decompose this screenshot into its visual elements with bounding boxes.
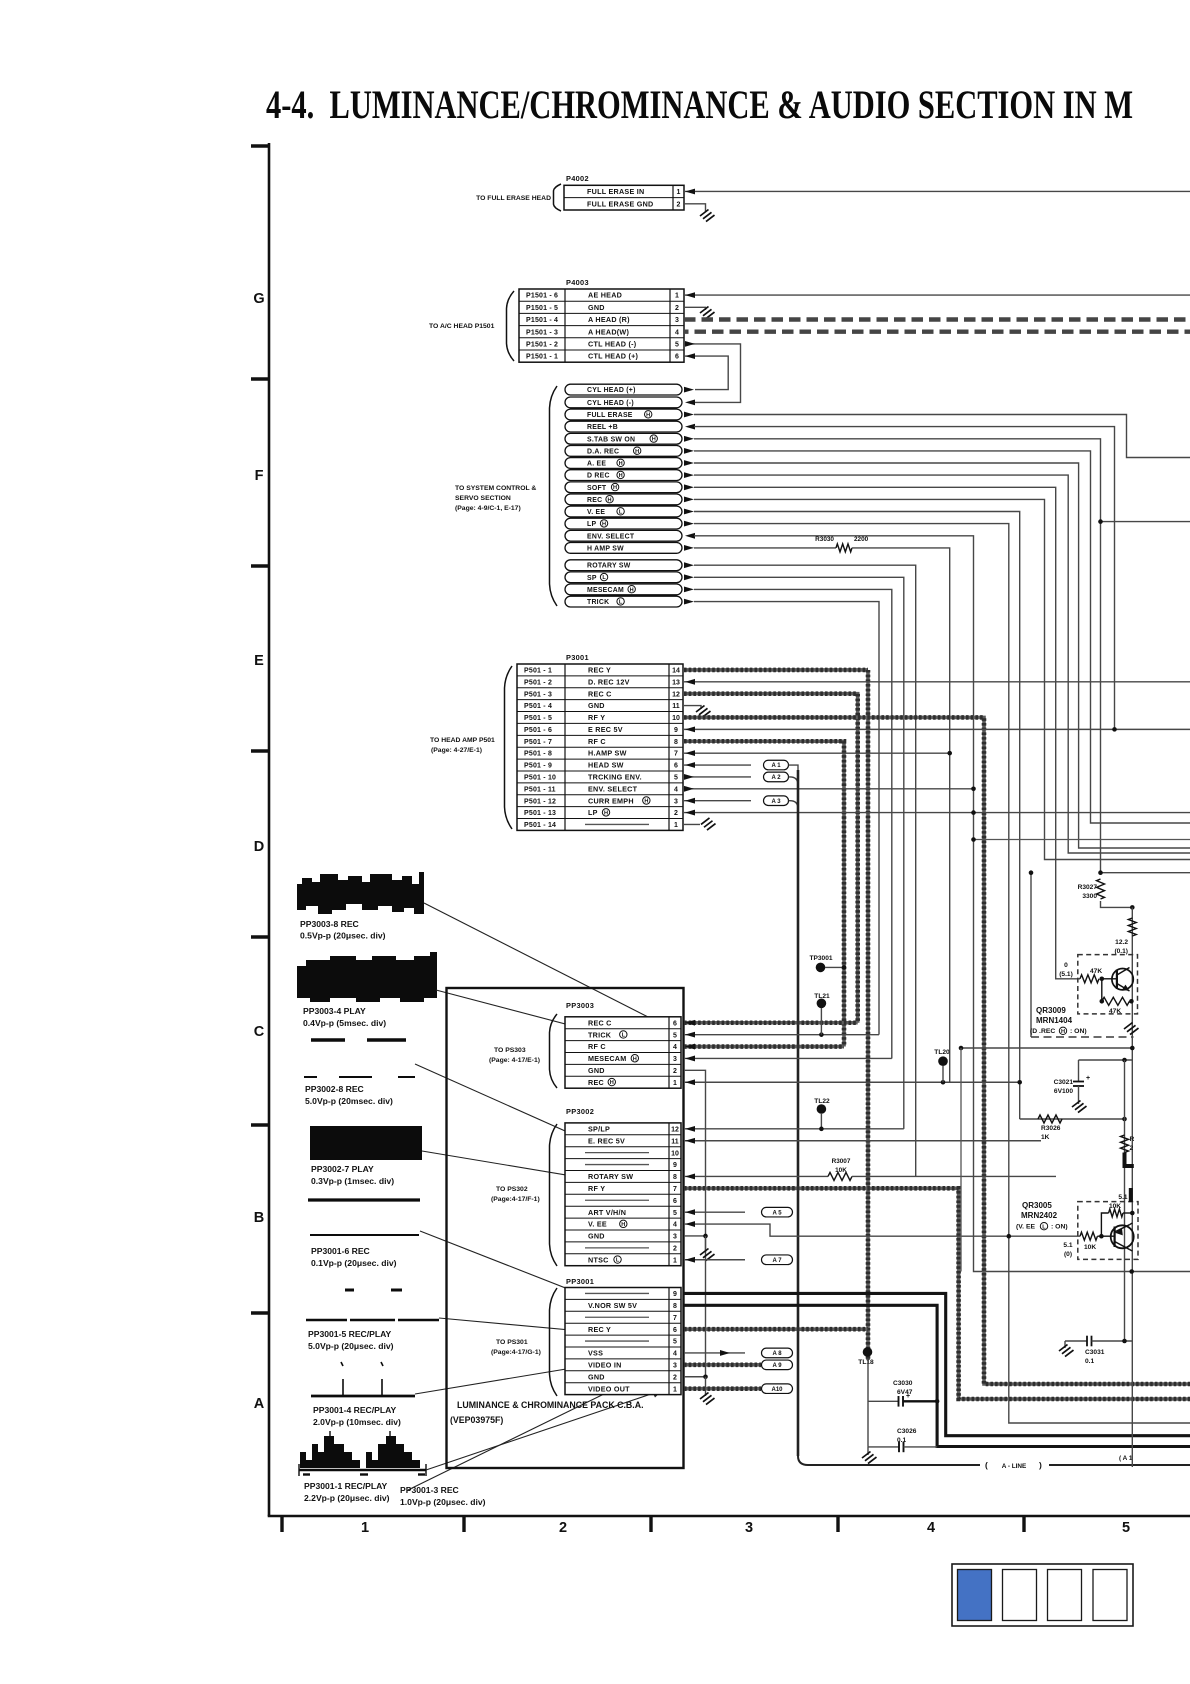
svg-text:9: 9	[674, 727, 678, 734]
bottom ruler line	[268, 1515, 1190, 1518]
svg-text:SP: SP	[587, 575, 597, 582]
wire P501-5 RF Y shielded	[684, 717, 1190, 1384]
svg-text:2.2Vp-p (20μsec. div): 2.2Vp-p (20μsec. div)	[304, 1493, 390, 1503]
svg-text:TRICK: TRICK	[588, 1030, 612, 1039]
svg-text:5.1: 5.1	[1063, 1242, 1072, 1249]
svg-text:2: 2	[675, 305, 679, 312]
svg-text:R3027: R3027	[1078, 884, 1098, 891]
svg-text:SOFT: SOFT	[587, 485, 607, 492]
annotation arrow PP3003-8 to pin	[424, 903, 652, 1019]
svg-text:B: B	[254, 1210, 264, 1226]
svg-text:REC Y: REC Y	[588, 666, 611, 675]
svg-text:11: 11	[671, 1138, 679, 1145]
svg-text:6: 6	[673, 1327, 677, 1334]
svg-text:13: 13	[672, 679, 680, 686]
wire V. EE net	[694, 512, 1020, 1120]
wire vertical x961	[960, 1048, 962, 1272]
svg-text:FULL ERASE: FULL ERASE	[587, 412, 633, 419]
svg-text:REEL +B: REEL +B	[587, 424, 618, 431]
wire FULL ERASE net	[694, 415, 1190, 458]
svg-text:V. EE: V. EE	[587, 509, 605, 516]
wire ROTARY SW net (right of R3007)	[852, 1175, 1056, 1177]
svg-text:PP3003: PP3003	[566, 1001, 594, 1010]
svg-text:D.A. REC: D.A. REC	[587, 448, 619, 455]
svg-text:12: 12	[671, 1126, 679, 1133]
svg-text:A HEAD (R): A HEAD (R)	[588, 315, 630, 324]
wire ENV. SELECT net	[694, 536, 1190, 1272]
svg-text:P1501 - 1: P1501 - 1	[526, 354, 558, 361]
svg-text:): )	[1039, 1460, 1042, 1470]
svg-text:TL18: TL18	[858, 1359, 874, 1366]
wire P501-6 E REC 5V	[684, 728, 1190, 730]
svg-text:E: E	[254, 653, 264, 669]
svg-text:CURR EMPH: CURR EMPH	[588, 796, 634, 805]
svg-text:A HEAD(W): A HEAD(W)	[588, 327, 629, 336]
wire 10K top to base junction	[1101, 1213, 1108, 1236]
svg-text:(0): (0)	[1064, 1251, 1072, 1258]
ground (PP3002-3)	[700, 1249, 715, 1261]
svg-text:P1501 - 5: P1501 - 5	[526, 305, 558, 312]
node ROTARY SW (servo section)	[565, 560, 682, 571]
wire emitter to bus	[961, 1047, 1132, 1049]
bracket for P4002	[554, 184, 562, 211]
svg-text:A 9: A 9	[772, 1363, 782, 1369]
svg-text:L: L	[622, 1033, 626, 1039]
svg-text:REC: REC	[587, 497, 602, 504]
ground (C3031)	[1059, 1345, 1074, 1357]
waveform PP3001-1 blob	[300, 1436, 360, 1468]
svg-text:P501 - 4: P501 - 4	[524, 703, 552, 710]
wire P501-13 LP	[684, 812, 1190, 814]
svg-text:D. REC 12V: D. REC 12V	[588, 677, 630, 686]
svg-text:P501 - 9: P501 - 9	[524, 763, 552, 770]
node REC (servo section)	[565, 494, 682, 505]
svg-text:5: 5	[673, 1339, 677, 1346]
ruler tick	[251, 749, 269, 752]
wire PP3001-6 REC Y shielded	[684, 1327, 868, 1331]
wire PP3001-9 heavy	[684, 1293, 1190, 1435]
svg-text:RF Y: RF Y	[588, 1184, 605, 1193]
wire dashed line y1037	[1031, 1036, 1134, 1038]
node A2	[764, 772, 789, 782]
svg-text:TO PS302: TO PS302	[496, 1186, 528, 1193]
wire SOFT net	[694, 487, 1080, 979]
wire S.TAB junction line	[1101, 521, 1190, 523]
wire PP3001-3 VIDEO IN shielded to A9	[684, 1363, 761, 1367]
svg-text:5: 5	[673, 1210, 677, 1217]
svg-text:R: R	[1130, 1136, 1135, 1143]
node TRICK (servo section)	[565, 596, 682, 607]
svg-text:H: H	[633, 1056, 637, 1062]
ground (PP3001-2)	[700, 1393, 715, 1405]
waveform PP3003-8 blob	[297, 872, 424, 914]
wire emitter branch	[1101, 979, 1103, 1002]
svg-text:47K: 47K	[1090, 968, 1102, 975]
annotation arrow PP3001-4 to pin	[415, 1354, 657, 1394]
bracket for PP3003	[550, 1014, 558, 1088]
svg-text:P501 - 6: P501 - 6	[524, 727, 552, 734]
block LUMINANCE & CHROMINANCE PACK C.B.A.	[447, 988, 684, 1468]
svg-text:TO HEAD AMP P501: TO HEAD AMP P501	[430, 737, 495, 744]
svg-text:PP3001-6 REC: PP3001-6 REC	[311, 1246, 370, 1256]
ruler tick	[251, 564, 269, 567]
svg-text:E REC 5V: E REC 5V	[588, 725, 623, 734]
svg-text:GND: GND	[588, 1232, 605, 1241]
svg-text:P4002: P4002	[566, 174, 589, 183]
svg-text:HEAD SW: HEAD SW	[588, 761, 624, 770]
wire heavy stub (clipped)	[1125, 1153, 1134, 1167]
wire GND stub down	[705, 1236, 707, 1252]
svg-text:D REC: D REC	[587, 473, 610, 480]
node V. EE (servo section)	[565, 506, 682, 517]
node SOFT (servo section)	[565, 482, 682, 493]
svg-text:TRICK: TRICK	[587, 599, 609, 606]
node A3	[764, 796, 789, 806]
svg-text:MESECAM: MESECAM	[588, 1054, 627, 1063]
connector PP3001	[565, 1288, 681, 1395]
svg-text:H: H	[619, 461, 623, 467]
node H AMP SW (servo section)	[565, 543, 682, 554]
svg-text:1K: 1K	[1041, 1134, 1050, 1141]
node ENV. SELECT (servo section)	[565, 530, 682, 541]
waveform PP3003-4 blob	[297, 952, 437, 1002]
wire PP3001-1 VIDEO OUT shielded to A10	[684, 1387, 761, 1391]
ruler tick	[462, 1516, 465, 1532]
svg-text:3: 3	[745, 1520, 753, 1536]
svg-text:1.0Vp-p (20μsec. div): 1.0Vp-p (20μsec. div)	[400, 1497, 486, 1507]
svg-text:ROTARY SW: ROTARY SW	[588, 1172, 633, 1181]
svg-text:H: H	[630, 587, 634, 593]
wire PP3001-8 V.NOR SW 5V heavy	[684, 1305, 1190, 1446]
wire P501-4 GND to ground	[684, 706, 701, 709]
wire base QR3005	[1097, 1235, 1114, 1237]
svg-text:4: 4	[673, 1044, 677, 1051]
svg-text:A 7: A 7	[772, 1258, 782, 1264]
svg-text:H.AMP SW: H.AMP SW	[588, 749, 627, 758]
svg-text:TO PS301: TO PS301	[496, 1339, 528, 1346]
wire REEL +B net	[694, 427, 1115, 730]
wire REC Y column lower	[867, 1360, 869, 1447]
connector P4003	[519, 289, 684, 362]
wire vertical x1124.5	[1124, 1060, 1126, 1341]
svg-text:1: 1	[675, 293, 679, 300]
wire PP3003-4 RF C shielded	[684, 1045, 844, 1049]
svg-text:E. REC 5V: E. REC 5V	[588, 1136, 625, 1145]
svg-text:R3007: R3007	[832, 1158, 851, 1165]
wire P501-14 to ground	[684, 823, 700, 825]
svg-text:1: 1	[673, 1257, 677, 1264]
svg-text:5: 5	[673, 1032, 677, 1039]
svg-text:GND: GND	[588, 701, 605, 710]
svg-text:TP3001: TP3001	[809, 955, 832, 962]
svg-text:0: 0	[1064, 962, 1068, 969]
wire C3031 ground stub	[1064, 1341, 1066, 1348]
svg-text:(Page: 4-17/E-1): (Page: 4-17/E-1)	[489, 1057, 540, 1064]
wire PP3003-3 MESECAM net	[684, 1057, 892, 1059]
wire PP3002-4 V.EE net to QR3005	[684, 1224, 1080, 1236]
svg-text:SERVO SECTION: SERVO SECTION	[455, 495, 511, 502]
svg-text:F: F	[255, 468, 264, 484]
svg-text:CYL HEAD (+): CYL HEAD (+)	[587, 387, 636, 394]
wire exit line y839.5	[974, 839, 1190, 841]
svg-text:TRCKING ENV.: TRCKING ENV.	[588, 773, 642, 782]
svg-text:S.TAB SW ON: S.TAB SW ON	[587, 436, 635, 443]
waveform PP3002-7 blob	[310, 1126, 422, 1160]
svg-text:5.0Vp-p (20msec. div): 5.0Vp-p (20msec. div)	[305, 1096, 393, 1106]
wire P501-3 REC C shielded	[684, 694, 858, 1023]
svg-text:TO FULL ERASE HEAD: TO FULL ERASE HEAD	[476, 195, 551, 202]
transistor QR3005 block box	[1078, 1202, 1138, 1260]
wire CYL HEAD (+) to P4003 pin6 CTL HEAD (+)	[684, 356, 728, 390]
svg-text:0.5Vp-p (20μsec. div): 0.5Vp-p (20μsec. div)	[300, 931, 386, 941]
ruler tick	[251, 1311, 269, 1314]
svg-text:C3031: C3031	[1085, 1349, 1105, 1356]
ruler tick	[251, 144, 269, 147]
node A5	[762, 1207, 793, 1217]
wire P501-8 H.AMP SW	[684, 752, 950, 754]
wire A3 curving down	[789, 801, 799, 809]
ground (P501-4)	[696, 706, 711, 718]
wire H AMP SW net	[852, 548, 950, 1083]
annotation arrow PP3003-4 to pin	[436, 990, 649, 1046]
svg-text:2: 2	[673, 1068, 677, 1075]
svg-text:C: C	[254, 1024, 265, 1040]
svg-text:TO SYSTEM CONTROL &: TO SYSTEM CONTROL &	[455, 485, 536, 492]
waveform PP3002-8 trace	[311, 1038, 345, 1041]
svg-text:10K: 10K	[835, 1167, 847, 1174]
svg-text:H: H	[604, 810, 608, 816]
svg-text:P3001: P3001	[566, 653, 589, 662]
svg-text:4: 4	[674, 786, 678, 793]
svg-text:G: G	[253, 291, 264, 307]
svg-text:0.1Vp-p (20μsec. div): 0.1Vp-p (20μsec. div)	[311, 1258, 397, 1268]
wire P4003 pin3 A HEAD (R) shielded	[684, 317, 1190, 321]
waveform PP3001-4 trace	[341, 1362, 343, 1366]
left ruler line	[268, 143, 271, 1516]
ruler tick	[251, 377, 269, 380]
svg-text:(V. EE: (V. EE	[1016, 1224, 1035, 1231]
svg-text:A: A	[254, 1396, 265, 1412]
svg-text:(Page:4-17/F-1): (Page:4-17/F-1)	[491, 1196, 540, 1203]
node LP (servo section)	[565, 518, 682, 529]
svg-text:2: 2	[673, 1245, 677, 1252]
svg-text:C3026: C3026	[897, 1428, 917, 1435]
svg-text:8: 8	[674, 739, 678, 746]
svg-text:P501 - 5: P501 - 5	[524, 715, 552, 722]
svg-text:14: 14	[672, 668, 680, 675]
wire A-LINE	[798, 1456, 980, 1465]
svg-text:H: H	[613, 485, 617, 491]
svg-text:5: 5	[1122, 1520, 1130, 1536]
svg-text:6V47: 6V47	[897, 1389, 913, 1396]
svg-text:P1501 - 2: P1501 - 2	[526, 342, 558, 349]
svg-text:NTSC: NTSC	[588, 1255, 609, 1264]
ground (QR3009)	[1124, 1023, 1139, 1035]
svg-text:P4003: P4003	[566, 278, 589, 287]
svg-text:D: D	[254, 839, 264, 855]
svg-text:+: +	[1086, 1075, 1090, 1082]
wire PP3001-4 VSS to A8	[684, 1352, 745, 1354]
svg-text:QR3005: QR3005	[1022, 1201, 1052, 1210]
node CYL HEAD (+) (servo section)	[565, 384, 682, 395]
node D.A. REC (servo section)	[565, 446, 682, 457]
svg-text:H: H	[608, 497, 612, 503]
svg-text:MRN1404: MRN1404	[1036, 1016, 1073, 1025]
svg-text:4: 4	[927, 1520, 935, 1536]
wire PP3003-1 REC net	[684, 1081, 1020, 1083]
svg-text:6V100: 6V100	[1054, 1088, 1073, 1095]
wire base	[1102, 978, 1117, 980]
svg-text:P501 - 13: P501 - 13	[524, 810, 556, 817]
node A10	[762, 1384, 793, 1394]
wire P501-1 REC Y shielded	[684, 668, 868, 672]
wire A-line bundle vertical	[797, 770, 800, 1456]
ground (P501-14)	[701, 818, 716, 830]
svg-text:P501 - 12: P501 - 12	[524, 798, 556, 805]
node SP (servo section)	[565, 572, 682, 583]
svg-text:6: 6	[673, 1020, 677, 1027]
svg-text:(5.1): (5.1)	[1059, 971, 1073, 978]
svg-text:PP3001: PP3001	[566, 1277, 594, 1286]
wire PP3003-2 GND rail	[684, 1070, 706, 1376]
wire A. EE net	[694, 463, 1190, 848]
svg-text:10K: 10K	[1084, 1244, 1096, 1251]
node A1	[764, 760, 789, 770]
svg-text:0.1: 0.1	[1085, 1358, 1094, 1365]
svg-text:L: L	[602, 575, 606, 581]
wire P4002 pin1 FULL ERASE IN	[684, 190, 1190, 192]
svg-text:8: 8	[673, 1174, 677, 1181]
svg-text:10: 10	[671, 1150, 679, 1157]
svg-text:11: 11	[672, 703, 680, 710]
resistor R3026	[1038, 1115, 1062, 1123]
svg-text:2.0Vp-p (10msec. div): 2.0Vp-p (10msec. div)	[313, 1417, 401, 1427]
svg-text:7: 7	[673, 1186, 677, 1193]
svg-text:R3030: R3030	[815, 536, 834, 543]
wire PP3002-8 ROTARY SW net (left of R3007)	[684, 1175, 828, 1177]
svg-text:H AMP SW: H AMP SW	[587, 545, 624, 552]
svg-text:1: 1	[361, 1520, 369, 1536]
svg-text:VIDEO IN: VIDEO IN	[588, 1360, 622, 1369]
wire A2 curving down	[789, 777, 799, 785]
wire P501-12 CURR EMPH from A3	[684, 800, 751, 802]
svg-text:TL20: TL20	[934, 1049, 950, 1056]
svg-text:(VEP03975F): (VEP03975F)	[450, 1415, 503, 1425]
svg-text:4: 4	[673, 1222, 677, 1229]
svg-text:6: 6	[674, 763, 678, 770]
svg-text:A 5: A 5	[772, 1210, 782, 1216]
svg-text:P501 - 14: P501 - 14	[524, 822, 556, 829]
svg-text:4: 4	[673, 1351, 677, 1358]
ground (C3026)	[862, 1452, 877, 1464]
svg-text:RF C: RF C	[588, 737, 606, 746]
svg-text:RF Y: RF Y	[588, 713, 605, 722]
svg-text:FULL ERASE IN: FULL ERASE IN	[587, 187, 644, 196]
svg-text:H: H	[635, 449, 639, 455]
svg-text:CYL HEAD (-): CYL HEAD (-)	[587, 400, 634, 407]
svg-text:+: +	[906, 1393, 910, 1400]
svg-text:(Page: 4-27/E-1): (Page: 4-27/E-1)	[431, 747, 482, 754]
svg-text:L: L	[1042, 1224, 1046, 1230]
annotation arrow PP3002-8 to pin	[415, 1064, 657, 1172]
waveform PP3001-5 trace	[345, 1289, 354, 1292]
svg-text:1: 1	[677, 189, 681, 196]
svg-text:9: 9	[673, 1291, 677, 1298]
svg-text:QR3009: QR3009	[1036, 1006, 1066, 1015]
svg-text:PP3001-5 REC/PLAY: PP3001-5 REC/PLAY	[308, 1329, 392, 1339]
svg-text:H: H	[621, 1222, 625, 1228]
svg-text:P501 - 3: P501 - 3	[524, 691, 552, 698]
ruler tick	[836, 1516, 839, 1532]
svg-text:C3021: C3021	[1054, 1079, 1074, 1086]
connector PP3002	[565, 1123, 681, 1266]
resistor R3030	[836, 544, 852, 552]
svg-text:7: 7	[673, 1315, 677, 1322]
svg-text:H: H	[1061, 1029, 1065, 1035]
resistor R... 2... (clipped at page edge)	[1121, 1135, 1129, 1153]
svg-text:LUMINANCE & CHROMINANCE PACK: LUMINANCE & CHROMINANCE PACK C.B.A.	[457, 1400, 644, 1410]
ruler tick	[251, 1123, 269, 1126]
wire P4003 pin1 AE HEAD	[684, 294, 1190, 296]
svg-text:A10: A10	[771, 1387, 783, 1393]
svg-text:6: 6	[675, 354, 679, 361]
wire PP3003-5 TRICK net	[684, 1034, 879, 1036]
svg-text:TO PS303: TO PS303	[494, 1047, 526, 1054]
svg-text:REC Y: REC Y	[588, 1325, 611, 1334]
wire TRICK net	[694, 602, 879, 1035]
svg-text:P501 - 1: P501 - 1	[524, 668, 552, 675]
svg-text:( A 1: ( A 1	[1119, 1455, 1133, 1462]
wire S.TAB SW ON net	[694, 439, 1101, 873]
wire collector stub heavy	[1129, 1188, 1133, 1202]
wire PP3002-12 SP/LP net	[684, 1128, 904, 1130]
svg-text:ENV. SELECT: ENV. SELECT	[587, 533, 635, 540]
transistor QR3009 block box	[1078, 955, 1138, 1014]
svg-text:12.2: 12.2	[1115, 939, 1128, 946]
svg-text:3: 3	[673, 1234, 677, 1241]
test point TL18	[863, 1347, 873, 1357]
svg-text:2: 2	[674, 810, 678, 817]
svg-text:P501 - 10: P501 - 10	[524, 775, 556, 782]
resistor R3007	[828, 1172, 852, 1180]
svg-text:0.3Vp-p (1msec. div): 0.3Vp-p (1msec. div)	[311, 1176, 394, 1186]
svg-text:PP3002-8 REC: PP3002-8 REC	[305, 1084, 364, 1094]
transistor QR3009	[1112, 969, 1133, 990]
svg-text:TO A/C HEAD P1501: TO A/C HEAD P1501	[429, 323, 495, 330]
svg-text:1: 1	[673, 1386, 677, 1393]
bracket for PP3002	[550, 1124, 558, 1266]
svg-text:ROTARY SW: ROTARY SW	[587, 563, 631, 570]
svg-text:GND: GND	[588, 1066, 605, 1075]
wire REC net	[694, 499, 1190, 859]
wire PP3002-1 NTSC to A7	[684, 1259, 745, 1261]
svg-text:: ON): : ON)	[1051, 1224, 1068, 1231]
svg-text:H: H	[644, 799, 648, 805]
wire P501-10 TRCKING ENV. to A2	[684, 776, 751, 778]
ruler tick	[280, 1516, 283, 1532]
svg-text:PP3003-4 PLAY: PP3003-4 PLAY	[303, 1006, 366, 1016]
svg-text:L: L	[619, 509, 623, 515]
svg-text:3: 3	[674, 798, 678, 805]
svg-text:1: 1	[673, 1080, 677, 1087]
svg-text:A 1: A 1	[771, 763, 781, 769]
wire R3027 to rail	[1101, 901, 1133, 907]
node A7	[762, 1255, 793, 1265]
svg-text:3: 3	[673, 1056, 677, 1063]
svg-text:MESECAM: MESECAM	[587, 587, 624, 594]
wire ROTARY SW net	[694, 565, 916, 1176]
ground (P4002 pin2)	[700, 210, 715, 222]
